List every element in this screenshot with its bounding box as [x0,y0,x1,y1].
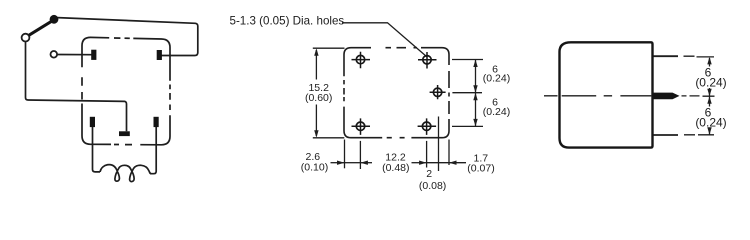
svg-text:(0.24): (0.24) [695,76,726,90]
svg-text:(0.24): (0.24) [695,116,726,130]
svg-text:5-1.3 (0.05) Dia. holes: 5-1.3 (0.05) Dia. holes [230,15,345,28]
svg-text:(0.48): (0.48) [382,162,409,174]
svg-text:2: 2 [426,168,432,180]
svg-text:(0.24): (0.24) [483,106,510,118]
svg-text:(0.24): (0.24) [483,73,510,85]
svg-text:(0.08): (0.08) [419,180,446,192]
svg-text:(0.07): (0.07) [467,163,494,175]
svg-text:(0.10): (0.10) [301,162,328,174]
svg-text:(0.60): (0.60) [305,92,332,104]
